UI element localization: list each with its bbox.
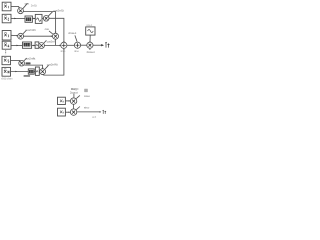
legend box L2 bbox=[58, 108, 66, 116]
mixer M2b bbox=[43, 15, 49, 21]
svg-text:cos: cos bbox=[25, 2, 30, 6]
output arrow bbox=[93, 44, 103, 46]
legend mixer C1 bbox=[70, 98, 76, 104]
dark label on M4 out wire bbox=[26, 62, 31, 64]
box B1 source 1 bbox=[2, 2, 11, 11]
svg-text:sinω: sinω bbox=[74, 49, 79, 53]
box 5b bbox=[28, 69, 34, 74]
wire L2 to C2 bbox=[65, 111, 69, 113]
mixer M4 bbox=[19, 60, 25, 66]
output mixer Mout bbox=[87, 42, 93, 48]
wire 2b to 2c bbox=[32, 17, 35, 19]
svg-text:sinω: sinω bbox=[61, 49, 66, 53]
wire B3b to box3bb bbox=[11, 44, 23, 46]
wire M1 long output down into M3b bbox=[23, 12, 55, 33]
adder A1 bbox=[61, 42, 67, 48]
wire B4 to M4 bbox=[11, 59, 20, 61]
svg-text:cos2πf: cos2πf bbox=[47, 39, 55, 43]
svg-text:cosω: cosω bbox=[84, 94, 91, 98]
LO arrow into C1 bbox=[76, 95, 80, 98]
wire A2 to Mout bbox=[81, 44, 87, 46]
wire M5b bottom out right and up into A1 bottom bbox=[43, 49, 64, 75]
wire B5 to box5b bbox=[11, 71, 29, 73]
mixer M3b bbox=[53, 33, 59, 39]
wire M3 to M3b bbox=[24, 35, 53, 37]
mixer M5b bbox=[40, 69, 46, 75]
svg-text:2cosωt: 2cosωt bbox=[87, 50, 95, 54]
box 5c narrow bbox=[35, 67, 39, 75]
svg-text:sinω: sinω bbox=[84, 106, 90, 110]
box 3bb bbox=[23, 42, 32, 48]
mixer M3 bbox=[18, 33, 24, 39]
box B3b source 4 bbox=[2, 41, 11, 49]
LO arrow into M3b bbox=[49, 31, 53, 34]
legend box L1 bbox=[58, 97, 66, 104]
mixer M3bb bbox=[39, 43, 45, 49]
wire title down to C1 bbox=[73, 94, 75, 98]
wire B3a to M3 bbox=[11, 34, 17, 36]
wire B1 to M1 bbox=[11, 6, 19, 8]
wire M3b down to chain4 wire bbox=[55, 39, 57, 45]
wire A1 to A2 bbox=[67, 44, 75, 46]
svg-text:2πf1t: 2πf1t bbox=[31, 3, 37, 7]
oscillator box bbox=[86, 27, 95, 35]
dark label below B5 wire bbox=[24, 75, 31, 77]
vertical dots between B3b and B4 bbox=[5, 50, 7, 54]
box B4 source 5 bbox=[2, 56, 11, 64]
wire C1 down to C2 bbox=[73, 104, 75, 109]
wire M2b to bus corner and down into A1 top bbox=[49, 18, 64, 41]
box 2c bbox=[35, 14, 42, 23]
wire B2 to box2b bbox=[11, 17, 25, 19]
box B5 source 6 bbox=[2, 67, 11, 76]
wire osc down into Mout bbox=[89, 35, 91, 41]
stub and label below Mout bbox=[89, 48, 91, 50]
svg-text:sinθ: sinθ bbox=[92, 115, 97, 119]
wire 3bb to 3bc bbox=[32, 44, 35, 46]
box 3bc narrow bbox=[35, 42, 39, 48]
mixer M1 bbox=[18, 8, 24, 14]
adder A2 bbox=[74, 42, 80, 48]
LO arrow into M5b bbox=[45, 65, 49, 69]
box B2 source 2 bbox=[2, 14, 11, 22]
wire M3bb to A1 bbox=[44, 44, 60, 46]
svg-text:2cosωt: 2cosωt bbox=[68, 31, 76, 35]
arrow from label into A2 bbox=[75, 35, 77, 41]
svg-text:cos2πf1t: cos2πf1t bbox=[54, 9, 65, 13]
LO arrow into M3bb bbox=[44, 40, 47, 43]
box 2b bbox=[25, 16, 32, 22]
LO arrow into M2b bbox=[48, 12, 52, 17]
LO arrow into M4 bbox=[24, 58, 27, 61]
legend output arrow bbox=[77, 111, 101, 113]
legend mixer C2 bbox=[70, 109, 76, 115]
output label bbox=[105, 42, 109, 47]
svg-text:cos2πfNt: cos2πfNt bbox=[47, 63, 58, 67]
svg-text:cos2πf2t: cos2πf2t bbox=[25, 28, 36, 32]
wire 5b to 5c bbox=[34, 71, 35, 73]
svg-text:cos2πfkt: cos2πfkt bbox=[25, 56, 35, 60]
svg-text:xN(t) chan: xN(t) chan bbox=[1, 77, 13, 81]
svg-text:cos: cos bbox=[45, 27, 50, 31]
LO arrow into M3 bbox=[23, 30, 27, 34]
wire 2c to M2b bbox=[42, 17, 44, 19]
wire L1 to C1 bbox=[65, 100, 69, 102]
wire M4 output down into M5b bbox=[24, 65, 42, 68]
LO arrow into C2 bbox=[76, 107, 80, 110]
legend output label bbox=[103, 110, 107, 114]
box B3a source 3 bbox=[2, 31, 11, 41]
LO arrow into M1 bbox=[23, 3, 28, 8]
